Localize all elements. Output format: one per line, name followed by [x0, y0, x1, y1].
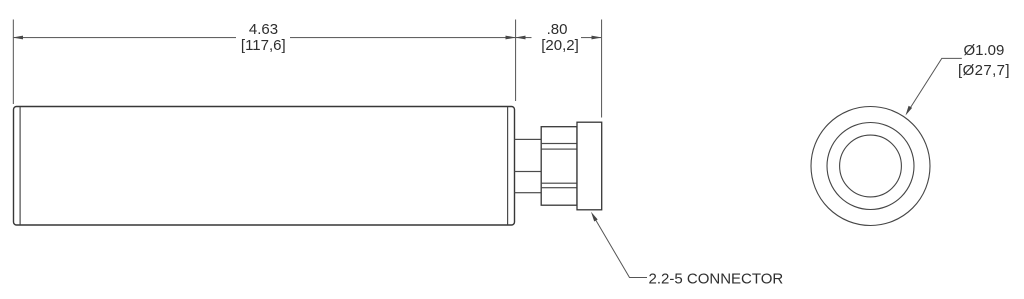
dimension line .80 left segment	[516, 37, 532, 38]
leader line 2.2-5 connector	[593, 215, 648, 278]
coupling nut groove line 4	[541, 187, 577, 188]
arrowhead .80 right	[592, 36, 602, 40]
coupling nut groove line 1	[541, 143, 577, 144]
arrowhead 4.63 right	[506, 36, 516, 40]
connector barrel body	[577, 122, 602, 210]
connector stub line top	[515, 139, 542, 140]
connector stub line middle	[515, 171, 542, 172]
svg-text:[117,6]: [117,6]	[241, 37, 286, 54]
svg-text:[20,2]: [20,2]	[541, 37, 579, 54]
leader arrowhead 2.2-5 connector	[591, 212, 598, 222]
leader line diameter	[907, 58, 962, 113]
svg-text:2.2-5 CONNECTOR: 2.2-5 CONNECTOR	[649, 271, 784, 288]
cylinder right end cap line	[507, 107, 508, 225]
arrowhead 4.63 left	[13, 36, 23, 40]
connector stub line bottom	[515, 192, 542, 193]
leader arrowhead diameter	[906, 106, 913, 116]
svg-text:4.63: 4.63	[249, 21, 278, 38]
coupling nut groove line 3	[541, 183, 577, 184]
svg-text:Ø1.09: Ø1.09	[964, 42, 1005, 59]
svg-text:.80: .80	[547, 21, 568, 38]
extension line left (4.63 dim)	[13, 20, 14, 105]
cylinder left end cap line	[20, 107, 21, 225]
dimension line 4.63 right segment	[290, 37, 516, 38]
connector coupling nut body	[541, 127, 577, 206]
arrowhead .80 left	[515, 36, 525, 40]
cylinder body outline	[14, 107, 515, 226]
svg-text:[Ø27,7]: [Ø27,7]	[958, 62, 1010, 79]
coupling nut groove line 2	[541, 149, 577, 150]
end view middle circle	[827, 123, 914, 210]
extension line right (.80 dim)	[601, 20, 602, 118]
end view inner circle	[840, 135, 902, 197]
extension line middle (shared 4.63/.80)	[515, 20, 516, 102]
dimension line .80 right segment	[581, 37, 602, 38]
dimension line 4.63 left segment	[13, 37, 236, 38]
end view outer circle	[811, 107, 930, 226]
